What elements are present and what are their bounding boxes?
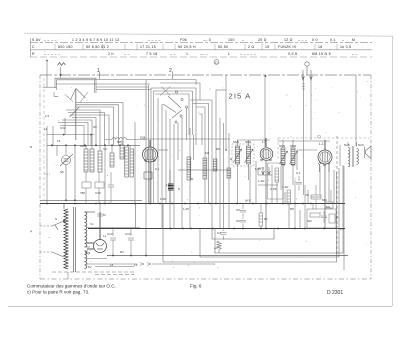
svg-text:5m5: 5m5: [344, 143, 350, 147]
svg-text:–– 0: –– 0: [203, 38, 211, 42]
svg-text:C5: C5: [236, 208, 240, 212]
svg-text:SM4: SM4: [290, 144, 297, 148]
svg-text:(bⁿ): (bⁿ): [245, 199, 250, 203]
svg-text:1M: 1M: [205, 151, 210, 155]
svg-text:2I5 A: 2I5 A: [229, 91, 252, 100]
svg-text:0,9,5: 0,9,5: [288, 52, 297, 56]
svg-text:R2: R2: [120, 250, 124, 254]
svg-text:L3: L3: [134, 263, 138, 267]
svg-text:S AV: S AV: [32, 38, 41, 42]
svg-text:S3: S3: [93, 125, 97, 129]
svg-text:c) Pour la paire R voir pag. 7: c) Pour la paire R voir pag. 73.: [27, 290, 89, 295]
svg-text:SM2: SM2: [245, 140, 252, 144]
svg-text:6V: 6V: [88, 265, 92, 269]
svg-text:5,25: 5,25: [255, 167, 261, 171]
svg-text:– – – –: – – – –: [148, 38, 161, 42]
svg-text:SM3: SM3: [279, 144, 286, 148]
svg-text:2 Ω: 2 Ω: [248, 45, 255, 49]
svg-text:7 5 18: 7 5 18: [146, 52, 158, 56]
svg-text:50 8,50 51 2: 50 8,50 51 2: [86, 45, 109, 49]
svg-text:–– –: –– –: [200, 52, 208, 56]
svg-text:1,5: 1,5: [166, 183, 171, 187]
svg-text:780: 780: [80, 191, 85, 195]
svg-text:15: 15: [265, 45, 270, 49]
svg-text:6M 15 N 5: 6M 15 N 5: [312, 52, 331, 56]
svg-text:– – – – –: – – – – –: [240, 52, 256, 56]
svg-text:0 0: 0 0: [312, 38, 318, 42]
svg-text:M: M: [352, 38, 355, 42]
svg-text:5M: 5M: [117, 140, 122, 144]
svg-text:16: 16: [318, 45, 323, 49]
svg-text:S: S: [55, 217, 57, 221]
svg-text:1,25: 1,25: [183, 207, 189, 211]
svg-text:IH3: IH3: [307, 219, 312, 223]
svg-text:FUNZK IX: FUNZK IX: [278, 45, 297, 49]
svg-text:1,50: 1,50: [160, 197, 166, 201]
svg-text:R: R: [32, 52, 35, 56]
svg-text:12 Ω: 12 Ω: [284, 38, 293, 42]
svg-text:L.1: L.1: [319, 142, 324, 146]
svg-text:C32: C32: [60, 126, 66, 130]
svg-text:C6: C6: [236, 219, 240, 223]
svg-text:S5: S5: [60, 170, 64, 174]
svg-text:1k 0,5: 1k 0,5: [340, 45, 351, 49]
svg-text:0,1: 0,1: [155, 167, 160, 171]
svg-text:1,5: 1,5: [340, 227, 345, 231]
svg-text:C4: C4: [217, 231, 221, 235]
svg-text:Commutateur des gammes d’onde: Commutateur des gammes d’onde sur O.C.: [27, 284, 116, 289]
svg-text:50,50: 50,50: [218, 45, 228, 49]
svg-text:V3: V3: [103, 147, 107, 151]
svg-text:L4: L4: [44, 127, 48, 131]
svg-text:5m6: 5m6: [358, 143, 364, 147]
svg-text:C₇: C₇: [336, 215, 339, 219]
svg-text:C: C: [32, 45, 35, 49]
svg-text:– –: – –: [352, 52, 358, 56]
svg-text:0,1: 0,1: [330, 38, 336, 42]
svg-text:C16: C16: [95, 191, 101, 195]
svg-text:1M5: 1M5: [80, 144, 86, 148]
svg-text:Fig. 6: Fig. 6: [190, 284, 202, 289]
svg-text:MΩ: MΩ: [322, 198, 327, 202]
svg-text:50 20,5 H: 50 20,5 H: [178, 45, 196, 49]
svg-text:CM: CM: [140, 136, 145, 140]
svg-text:C13: C13: [125, 232, 131, 236]
svg-text:1 2 3 4 5 6 7 8 9 10 11 12: 1 2 3 4 5 6 7 8 9 10 11 12: [72, 38, 119, 42]
svg-text:C.Pb: C.Pb: [270, 187, 277, 191]
svg-text:– – – –: – – – –: [44, 38, 57, 42]
svg-text:100: 100: [228, 38, 235, 42]
svg-text:1,5: 1,5: [45, 114, 50, 118]
svg-text:– –: – –: [124, 52, 130, 56]
svg-text:–: –: [242, 38, 244, 42]
svg-text:– – – – –: – – – – –: [44, 52, 60, 56]
svg-text:L: L: [228, 52, 230, 56]
svg-text:– –: – –: [170, 52, 176, 56]
svg-text:A3: A3: [214, 246, 218, 250]
svg-text:R7: R7: [264, 217, 268, 221]
svg-text:C12: C12: [107, 232, 113, 236]
svg-text:1,2Ω: 1,2Ω: [258, 179, 265, 183]
svg-text:Vc: Vc: [90, 222, 94, 226]
svg-text:SM1: SM1: [233, 140, 240, 144]
svg-text:50: 50: [190, 177, 194, 181]
svg-text:M1: M1: [326, 205, 330, 209]
svg-text:L7: L7: [262, 140, 266, 144]
svg-text:1: 1: [186, 52, 188, 56]
svg-text:600 150: 600 150: [58, 45, 73, 49]
svg-text:2: 2: [169, 68, 172, 74]
svg-text:–: –: [342, 38, 344, 42]
svg-text:2 h: 2 h: [108, 52, 114, 56]
svg-text:0,1: 0,1: [296, 171, 301, 175]
svg-text:20 Ω: 20 Ω: [258, 38, 267, 42]
svg-text:R5: R5: [290, 207, 294, 211]
svg-text:φ: φ: [30, 229, 32, 233]
svg-text:D 2301: D 2301: [327, 290, 343, 296]
svg-text:N: N: [30, 145, 32, 149]
svg-text:F06: F06: [180, 38, 187, 42]
svg-text:5V4: 5V4: [85, 251, 91, 255]
svg-text:R6: R6: [216, 147, 220, 151]
svg-text:1,4Ω: 1,4Ω: [282, 185, 289, 189]
svg-text:– – –: – – –: [298, 38, 307, 42]
svg-text:17 21,15: 17 21,15: [140, 45, 156, 49]
svg-text:D: D: [215, 60, 218, 65]
svg-text:L5: L5: [57, 139, 61, 143]
svg-text:L5: L5: [110, 263, 114, 267]
